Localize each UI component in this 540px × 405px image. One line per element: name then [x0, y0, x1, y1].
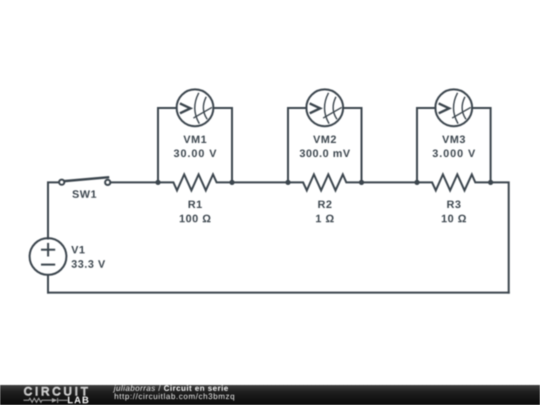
value R3 10 Ω [442, 215, 466, 223]
switch SW1 [59, 177, 110, 185]
junction node A [155, 180, 160, 185]
junction node C [285, 180, 290, 185]
CircuitLab logo wordmark CIRCUIT [24, 387, 87, 395]
value VM1 30.00 V [174, 149, 217, 157]
junction node F [488, 180, 493, 185]
label R3 [447, 200, 460, 208]
value VM2 300.0 mV [300, 149, 350, 157]
wire: VM2 left branch [288, 108, 306, 182]
value R2 1 Ω [316, 215, 334, 223]
wire: bottom return [48, 292, 509, 294]
wire: node D to node E [362, 181, 418, 183]
label VM1 [183, 136, 206, 143]
voltmeter VM2 [306, 89, 343, 126]
wire: VM3 right branch [472, 108, 491, 182]
wire: VM2 right branch [343, 108, 361, 182]
wire: VM1 right branch [213, 108, 232, 182]
label V1 [71, 246, 84, 253]
CircuitLab logo LAB [68, 397, 88, 404]
label SW1 [72, 190, 96, 198]
CircuitLab logo resistor-diode squiggle [24, 398, 68, 403]
wire: SW1 right terminal to node A [110, 181, 158, 183]
resistor R3 [417, 174, 491, 190]
label VM3 [442, 135, 465, 143]
voltmeter VM3 [435, 89, 472, 126]
voltmeter VM1 [177, 89, 214, 126]
junction node E [414, 180, 419, 185]
label VM2 [313, 135, 336, 143]
wire: top-left corner, SW1 left lead down to V1 top [48, 182, 59, 238]
value R1 100 Ω [180, 215, 211, 223]
wire: V1 bottom lead [47, 275, 49, 293]
wire: VM1 left branch [158, 108, 177, 182]
junction node D [359, 180, 364, 185]
junction node B [229, 180, 234, 185]
voltage source V1 [30, 238, 67, 275]
resistor R2 [288, 174, 362, 190]
value VM3 3.000 V [433, 149, 476, 157]
wire: VM3 left branch [417, 108, 435, 182]
wire: node B to node C [232, 181, 288, 183]
label R2 [318, 200, 331, 208]
value V1 33.3 V [71, 260, 105, 268]
footer url line (circuitlab short link) [115, 393, 234, 400]
footer bar [0, 385, 540, 405]
footer attribution: juliaborras / Circuit en serie [113, 385, 228, 392]
resistor R1 [158, 174, 232, 190]
wire: node F to top-right corner down to bottom-right corner [491, 182, 509, 292]
label R1 [189, 201, 202, 208]
